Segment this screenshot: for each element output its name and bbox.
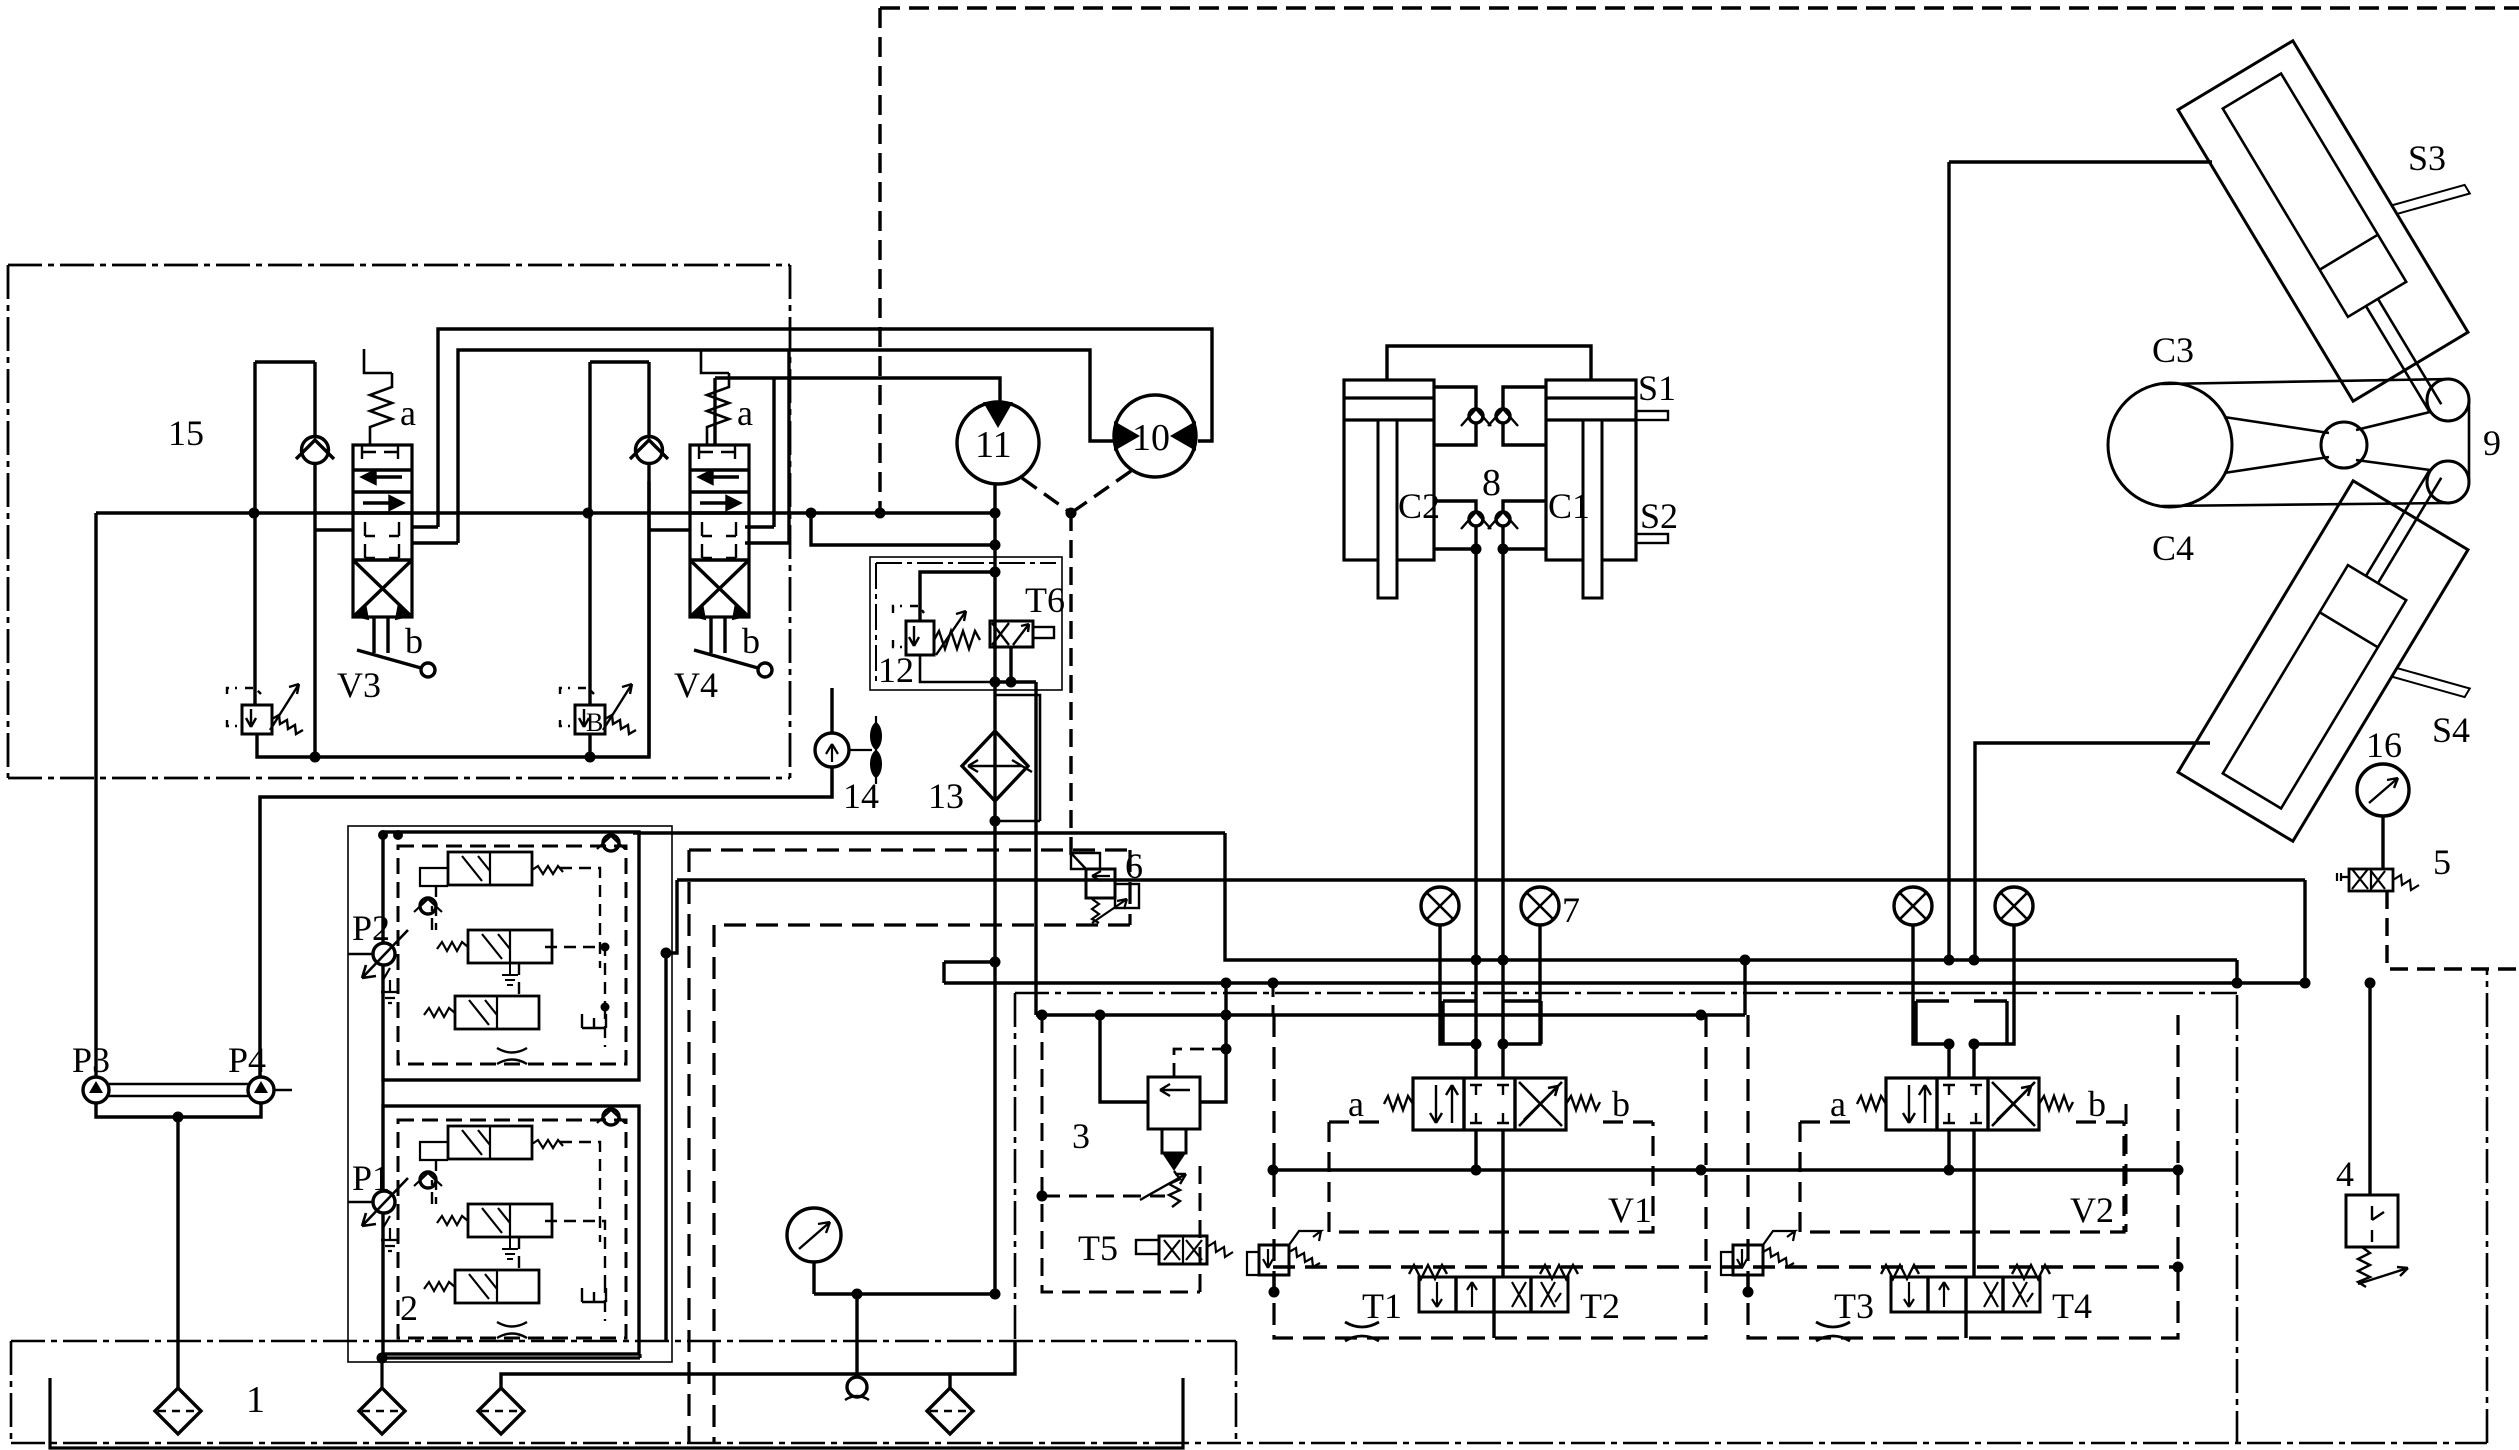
wire feed L from bus [1100, 1015, 1148, 1102]
sub-block P1 dashed frame [398, 1120, 626, 1338]
sub-block P1 heavy frame [383, 1106, 639, 1354]
node bus tap on pump column [990, 957, 1001, 968]
svg-text:V2: V2 [2070, 1190, 2114, 1230]
relief valve under V3 [227, 684, 303, 734]
pump 11 [957, 402, 1039, 484]
wire T6 drain [995, 647, 1036, 1015]
wire long solid line y=1015 [1036, 1013, 1745, 1016]
pilot dashed box V2 [1800, 1122, 2124, 1232]
wire right bend of y=960 bus [2235, 960, 2238, 983]
valve 5 [2337, 869, 2419, 891]
wire line B: V3/V4 ports to motor 10 left [458, 350, 1113, 543]
node main line junctions [249, 508, 260, 519]
filter suction P3P4 [155, 1388, 201, 1434]
sensor stub S3 [2392, 168, 2470, 231]
wire dashed feed above box [1272, 983, 1275, 1015]
lamp 2 [1521, 887, 1559, 925]
tank 1 boundary [50, 1378, 1183, 1448]
svg-text:T1: T1 [1362, 1286, 1402, 1326]
tank E symbol [582, 1014, 606, 1028]
node stem junctions [1471, 1039, 1482, 1050]
node block feed [378, 830, 388, 840]
wire T1 bottom stub [1492, 1312, 1495, 1338]
svg-text:1: 1 [246, 1379, 265, 1421]
wire pilot b dashed drop [2125, 1104, 2128, 1232]
svg-text:10: 10 [1132, 417, 1170, 459]
svg-text:V1: V1 [1608, 1190, 1652, 1230]
svg-text:b: b [742, 621, 760, 661]
wire bracket jogs V1 [1443, 1001, 1541, 1044]
spring a (V2) [1857, 1096, 1886, 1110]
wire gauge line [814, 1262, 995, 1294]
wire return manifold [501, 1340, 1015, 1388]
pulley top [2427, 379, 2469, 421]
wire switch 4 feed [2368, 983, 2371, 1195]
tank E symbol block1 [582, 1288, 606, 1302]
filter right [927, 1388, 973, 1434]
wire suction bridge [96, 1103, 261, 1388]
node bus junctions [1221, 978, 1232, 989]
wire V4 right ports [745, 527, 789, 543]
wire top bridge [1387, 346, 1591, 380]
valve T3/T4 [1881, 1265, 2050, 1312]
svg-text:14: 14 [843, 776, 879, 816]
wire valve 5 dashed drain [2387, 891, 2519, 969]
outer dashed box V2 [1748, 1015, 2178, 1338]
wire V3 right ports [412, 527, 458, 543]
svg-text:T3: T3 [1834, 1286, 1874, 1326]
wire line B riser from V4 [787, 350, 790, 543]
stub right of P4 [274, 1089, 292, 1092]
box 12 dash-dot edge [876, 563, 1056, 684]
node jog junction [990, 540, 1001, 551]
node y1173 junctions [1268, 1165, 1279, 1176]
check ball block1 [414, 1172, 442, 1188]
wire relief drain line y=757 [257, 481, 649, 757]
node lower junctions [1471, 544, 1482, 555]
wire lamp stems [1440, 925, 2014, 1044]
check valve top right of block [597, 835, 625, 851]
sub-block P2 dashed frame [398, 846, 626, 1064]
svg-text:S1: S1 [1638, 368, 1676, 408]
shaft between P3 and P4 [109, 1084, 248, 1096]
svg-text:15: 15 [168, 413, 204, 453]
wire T3 bottom stub [1964, 1312, 1967, 1338]
check valve pair upper [1434, 387, 1546, 445]
svg-text:7: 7 [1562, 890, 1580, 930]
valve block1-C [424, 1270, 539, 1303]
wire right bend of y=880 bus [2303, 880, 2306, 983]
pulley bottom [2427, 461, 2469, 503]
svg-text:11: 11 [975, 424, 1012, 466]
check valve at V4 [630, 437, 668, 464]
lamp 1 [1421, 887, 1459, 925]
pilot dashes P1 block [432, 1142, 605, 1321]
wire bottom dash-dot boundary [11, 969, 2487, 1443]
pilot dashes P2 block [432, 868, 605, 1047]
wire long dashed pilot line y=1267 [1273, 1265, 2178, 1269]
valve V3 body [353, 445, 412, 618]
wire L drop to long bus y=960 [1225, 833, 2237, 960]
orifice V1 [1345, 1322, 1379, 1341]
node relief drain junctions [310, 752, 321, 763]
svg-text:a: a [1830, 1084, 1846, 1124]
svg-text:B: B [586, 708, 603, 737]
svg-text:a: a [1348, 1084, 1364, 1124]
wire relief drain stub [1272, 1275, 1275, 1292]
valve V4 body [690, 445, 749, 618]
svg-text:6: 6 [1125, 846, 1143, 886]
belt lines [2162, 379, 2469, 506]
node column junctions [990, 567, 1001, 578]
pump P3 [83, 1077, 109, 1103]
cylinder C2 [1344, 380, 1434, 598]
svg-text:b: b [405, 621, 423, 661]
sensor stub S2 [1636, 534, 1668, 543]
rod S3 [2366, 299, 2441, 412]
node drain junction [377, 1353, 388, 1364]
svg-text:T6: T6 [1025, 580, 1065, 620]
spring of V4 [701, 349, 729, 445]
cylinder S3 barrel [2178, 41, 2468, 401]
svg-text:P4: P4 [228, 1040, 266, 1080]
check valve top right of block1 [597, 1109, 625, 1125]
pulley big C3/C4 [2108, 383, 2232, 507]
ball check in tank [845, 1294, 869, 1400]
rod S4 [2366, 471, 2441, 584]
wire V1 bottom stubs [1476, 1130, 1503, 1277]
wire drop x=677 to dash-dot boundary [666, 880, 677, 1341]
wire valve top stubs [1476, 1044, 1974, 1078]
wire relief 12 drain [920, 655, 995, 682]
wire pump 11 column [993, 484, 996, 1294]
svg-text:S2: S2 [1640, 496, 1678, 536]
lamp 4 [1995, 887, 2033, 925]
valve T1/T2 [1409, 1265, 1578, 1312]
tank mark under P2 [381, 968, 399, 1003]
lever of V3 [357, 617, 435, 677]
svg-text:T5: T5 [1078, 1228, 1118, 1268]
valve 3 body [1140, 1077, 1200, 1207]
valve block2-A [420, 852, 563, 886]
wire frame line [1949, 162, 2212, 960]
svg-text:C1: C1 [1548, 486, 1590, 526]
svg-text:12: 12 [878, 650, 914, 690]
svg-text:C2: C2 [1398, 486, 1440, 526]
wire relief drain stub V2 [1746, 1275, 1749, 1292]
box 15 dash-dot frame [8, 265, 790, 778]
node gauge junctions [852, 1289, 863, 1300]
wire pilot branch in box 12 [920, 572, 995, 621]
wire V3 left port [315, 528, 353, 531]
pump P4 [248, 1077, 274, 1103]
svg-text:S3: S3 [2408, 138, 2446, 178]
node y1015 junctions [1037, 1010, 1048, 1021]
wire dash-dot assembly box top y=993 [1015, 992, 2237, 995]
valve V2 body [1886, 1078, 2039, 1130]
svg-text:9: 9 [2483, 423, 2501, 463]
wire work line y=1173 [1273, 1168, 2178, 1171]
lever of V4 [694, 617, 772, 677]
motor 10 [1114, 395, 1196, 477]
pressure switch 4 [2346, 1195, 2408, 1287]
wire V3 inverted-U top bracket [255, 362, 315, 757]
wire S4 to V2 feed [1975, 743, 2210, 960]
svg-text:S4: S4 [2432, 710, 2470, 750]
wire dashed drops to tank [689, 850, 714, 1443]
wire gauge stem [2381, 816, 2384, 869]
tank mark under P1 [381, 1216, 399, 1251]
wire filter right riser [948, 1374, 951, 1388]
svg-text:P1: P1 [352, 1158, 390, 1198]
filter 13 [962, 731, 1032, 801]
svg-text:2: 2 [400, 1288, 418, 1328]
svg-text:5: 5 [2433, 842, 2451, 882]
wire top dashed vertical drop [878, 8, 881, 513]
valve block1-A [420, 1126, 563, 1160]
svg-text:b: b [2088, 1084, 2106, 1124]
svg-text:V3: V3 [337, 665, 381, 705]
valve block2-C [424, 996, 539, 1029]
node drop junction [661, 948, 672, 959]
relief valve V1 [1247, 1231, 1321, 1275]
wire dashed drain Y from pumps [1022, 471, 1131, 860]
svg-text:C4: C4 [2152, 528, 2194, 568]
wire fan riser [830, 688, 833, 733]
check valve at V3 [296, 437, 334, 464]
svg-text:P2: P2 [352, 908, 390, 948]
orifice V2 [1816, 1322, 1850, 1341]
svg-text:P3: P3 [72, 1040, 110, 1080]
wire block2 top feed line y=833 [633, 831, 1225, 834]
cylinder C1 [1546, 380, 1636, 598]
node pilot junctions [601, 943, 610, 952]
box 12 thin frame [870, 557, 1062, 690]
pump P2 [348, 930, 408, 978]
node relief drain [1269, 1287, 1280, 1298]
svg-text:C3: C3 [2152, 330, 2194, 370]
pressure gauge 16 [2357, 764, 2409, 816]
svg-text:3: 3 [1072, 1116, 1090, 1156]
fan pump 14 [815, 716, 882, 784]
wire long bus y=880 [677, 878, 2305, 881]
wire line A: V3 port to motor 10 right [438, 329, 1212, 527]
wire cylinder feed lines down [1476, 549, 1503, 1044]
spring a (V1) [1384, 1096, 1413, 1110]
wire V4 inverted-U top bracket [590, 362, 649, 757]
node relief drain V2 [1743, 1287, 1754, 1298]
lamp 3 [1894, 887, 1932, 925]
svg-text:16: 16 [2366, 725, 2402, 765]
valve 6 dashed box [689, 850, 1130, 925]
wire dash-dot assembly box left x=1015 [1014, 993, 1017, 1374]
filter return [478, 1388, 524, 1434]
outer dashed box V1 [1274, 1015, 1706, 1338]
filter block2 drain [359, 1388, 405, 1434]
valve block2-B [437, 930, 552, 985]
wire line C: V4 top port to pump 11 top [715, 378, 1000, 527]
node pilot junction [1221, 1044, 1232, 1055]
node dashed box junction [1037, 1191, 1048, 1202]
node suction junction [173, 1112, 184, 1123]
wire jog from main line down to pump column [811, 513, 995, 545]
wire V2 bottom stubs [1949, 1130, 1974, 1277]
wire dash-dot assembly box right x=2237 [2236, 995, 2239, 1443]
svg-text:T2: T2 [1580, 1286, 1620, 1326]
svg-text:b: b [1612, 1084, 1630, 1124]
wire block drain lines [382, 1080, 640, 1388]
svg-text:13: 13 [928, 776, 964, 816]
pump P1 [348, 1178, 408, 1226]
relief valve 12 [893, 606, 980, 655]
sub-block P2 heavy frame [383, 832, 639, 1080]
svg-text:T4: T4 [2052, 1286, 2092, 1326]
svg-text:a: a [737, 393, 753, 433]
valve T6 [990, 621, 1054, 647]
relief valve B under V4 [560, 684, 636, 737]
wire riser x=1745 [1743, 960, 1746, 1015]
check valve pair lower [1434, 501, 1546, 549]
wire filter bypass [995, 695, 1040, 821]
cylinder S4 barrel [2178, 481, 2468, 841]
orifice block2 [497, 1048, 527, 1064]
orifice block1 [497, 1322, 527, 1338]
check ball block2 [414, 898, 442, 914]
wire V4 left port [649, 528, 690, 531]
wire long bus y=983 [944, 962, 2305, 983]
svg-text:a: a [400, 393, 416, 433]
node dashed-line terminal on main line [875, 508, 886, 519]
pilot dashed box V1 [1329, 1122, 1653, 1232]
sensor stub S1 [1636, 411, 1668, 420]
svg-text:4: 4 [2336, 1154, 2354, 1194]
wire left riser to pump P3 [94, 513, 97, 1078]
dashed box around 3/T5 [1042, 1015, 1200, 1292]
valve V1 body [1413, 1078, 1566, 1130]
pressure gauge [787, 1208, 841, 1262]
svg-text:V4: V4 [674, 665, 718, 705]
valve block1-B [437, 1204, 552, 1259]
valve T5 [1136, 1236, 1233, 1264]
wire pilot dashed to valve 3 [1174, 1049, 1226, 1077]
relief valve V2 [1721, 1231, 1795, 1275]
block 2 thin outer frame [348, 826, 672, 1362]
valve 6 [1071, 853, 1139, 923]
spring b (V1) [1566, 1096, 1600, 1110]
wire top dashed horizontal [880, 6, 2519, 9]
wire main pressure line y=513 [96, 511, 995, 514]
spring of V3 [364, 349, 392, 445]
svg-text:8: 8 [1482, 462, 1501, 504]
spring b (V2) [2039, 1096, 2073, 1110]
wire feed from filter column [1200, 983, 1226, 1102]
sensor stub S4 [2392, 651, 2470, 714]
pulley middle [2321, 422, 2367, 468]
wire heavy return line y=797 to fan 14 [260, 766, 832, 1078]
wire bracket jogs V2 [1916, 1001, 2007, 1044]
